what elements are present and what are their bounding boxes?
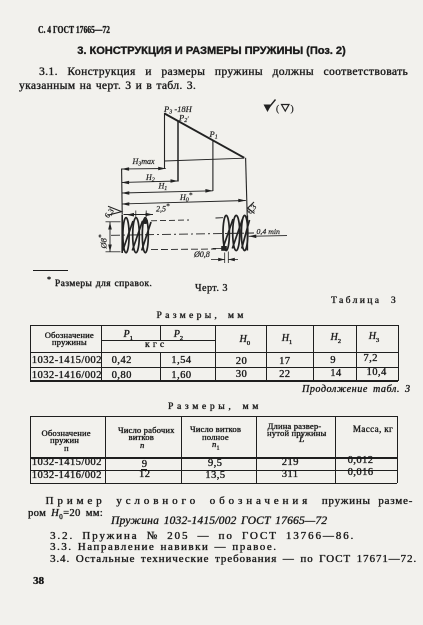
vertical extension at P3 — [164, 113, 166, 169]
svg-text:Н1: Н1 — [158, 182, 168, 193]
vertical extension at P2 — [177, 121, 179, 182]
table 2 — [0, 0, 423, 1]
figure caption — [195, 283, 228, 294]
right coil top edge stub — [216, 217, 224, 219]
svg-text:Ø0,8: Ø0,8 — [193, 250, 210, 259]
dimension D 8 vertical — [109, 222, 111, 252]
bottom line of load diagram — [165, 158, 245, 161]
roughness mark 6,3 at right coil end — [248, 202, 255, 214]
page header — [38, 25, 110, 36]
svg-text:): ) — [291, 104, 294, 115]
svg-text:Ø8*: Ø8* — [98, 234, 109, 249]
left boundary vertical — [121, 169, 124, 215]
dimension H3 max — [122, 168, 166, 171]
break line bottom — [151, 248, 216, 251]
wire section square at right coil bottom — [221, 246, 227, 251]
svg-text:0,4 min: 0,4 min — [257, 227, 280, 236]
footnote — [47, 275, 152, 289]
svg-text:P2′: P2′ — [178, 113, 189, 125]
roughness mark 6,3 at left coil end — [108, 206, 122, 215]
break line top — [151, 219, 189, 222]
dimension H1 — [122, 191, 213, 193]
table 2 title — [168, 402, 262, 412]
spring left coil end face — [121, 215, 123, 254]
roughness mark top right (rest of surfaces) — [264, 105, 272, 113]
right boundary vertical — [246, 158, 248, 216]
paragraph 3.1 line 2 — [19, 80, 196, 92]
paragraph 3.1 line 1 — [39, 66, 408, 78]
center line of spring — [111, 233, 254, 235]
load line P3-P1 slanted — [165, 114, 245, 158]
dimension H2 — [122, 181, 178, 183]
example paragraph — [46, 495, 414, 507]
dimension 2,5 — [124, 214, 154, 216]
svg-text:Н3mах: Н3mах — [132, 157, 156, 168]
page number — [33, 575, 44, 587]
svg-text:(: ( — [276, 104, 279, 115]
svg-text:P3 -18Н: P3 -18Н — [163, 104, 193, 116]
wire section dot on left coil third loop — [142, 219, 148, 224]
spring right coil ground end face — [246, 216, 248, 251]
table 1 — [0, 0, 423, 1]
section heading — [0, 45, 423, 57]
spring left coil loops — [123, 218, 151, 253]
label 0,4 min with leader arrow — [249, 235, 287, 238]
svg-text:Н2: Н2 — [145, 173, 155, 184]
spring right coil loops — [223, 215, 250, 250]
table 1 title — [157, 311, 247, 321]
dimension H0 — [122, 201, 246, 205]
footnote rule — [33, 270, 68, 271]
continuation label — [302, 384, 411, 395]
svg-text:2,5*: 2,5* — [156, 203, 170, 214]
svg-text:P1: P1 — [209, 129, 218, 141]
vertical extension at P1 — [212, 141, 214, 192]
table 3 label — [331, 296, 398, 306]
